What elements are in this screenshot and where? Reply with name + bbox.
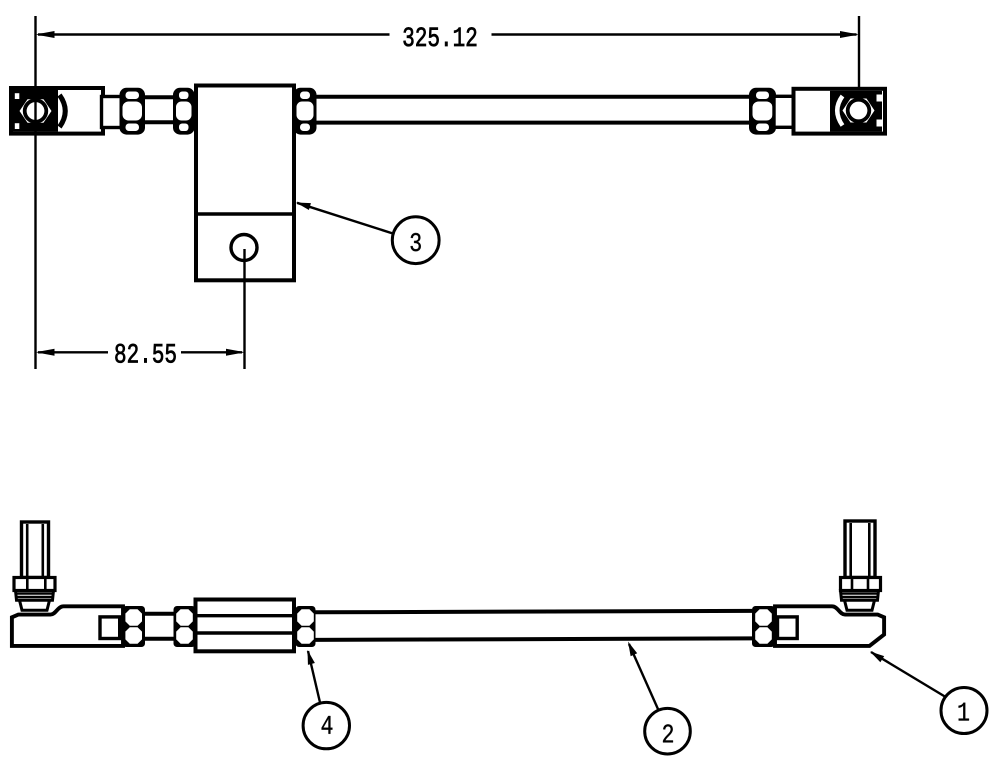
clamp nut C (bottom view) (296, 606, 316, 647)
callout balloon 3 (392, 217, 439, 264)
clamp nut D (bottom view) (752, 606, 775, 647)
ball stud right (bottom view) (845, 521, 875, 578)
jam nut 2 (top view) (173, 88, 195, 135)
dimension line 82.55 (36, 349, 246, 356)
boot rings right (bottom view) (841, 591, 879, 611)
jam nut 1 (top view) (120, 88, 146, 135)
callout 4 leader arrow (304, 649, 320, 702)
callout 1 leader arrow (868, 648, 946, 697)
dimension text 82.55 (115, 344, 175, 363)
ball stud left (bottom view) (22, 522, 49, 578)
neck right (top view) (774, 96, 795, 127)
long drag link tube (top view) (314, 97, 751, 123)
extension line left (34, 16, 36, 369)
callout 3 leader arrow (295, 199, 393, 234)
callout balloon 4 (303, 702, 349, 748)
drag link tube item 2 (bottom view) (314, 611, 752, 640)
threaded rod between nuts (top view) (143, 97, 176, 122)
clamp nut B (bottom view) (174, 606, 196, 647)
extension line from block hole (243, 249, 245, 369)
dimension line 325.12 (36, 31, 860, 38)
dimension text 325.12 (404, 27, 477, 46)
callout balloon 1 (941, 688, 987, 734)
tie rod end housing left (top view) (11, 88, 103, 134)
stud nut left (bottom view) (14, 578, 55, 591)
clamp nut A (bottom view) (123, 606, 146, 647)
boot rings left (bottom view) (16, 591, 54, 611)
tie rod end body right item 1 (bottom view) (775, 606, 884, 646)
callout 2 leader arrow (625, 640, 660, 712)
tie rod end housing right (top view) (794, 89, 886, 134)
adjuster sleeve item 4 (bottom view) (196, 600, 295, 652)
callout balloon 2 (645, 708, 691, 754)
jam nut 3 (top view) (294, 88, 317, 135)
clamp block item 3 (top view) (196, 86, 294, 281)
jam nut 4 (top view) (749, 88, 776, 135)
tie rod end body left (bottom view) (12, 606, 123, 646)
extension line right (858, 16, 860, 88)
hole in clamp block (231, 235, 257, 261)
stud nut right (bottom view) (841, 578, 881, 591)
neck left (top view) (102, 97, 124, 128)
threaded rod A-B (bottom view) (144, 614, 175, 639)
